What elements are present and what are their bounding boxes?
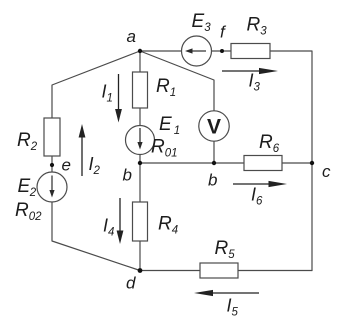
current arrow I3 [222,68,278,74]
node c [310,161,331,181]
svg-text:f: f [220,23,227,42]
svg-text:R1: R1 [156,76,176,99]
wire [270,51,312,271]
node f [220,23,227,54]
node b (left) [123,161,143,185]
node e [50,156,71,175]
svg-text:I4: I4 [103,216,114,239]
wire [51,156,53,173]
resistor R2 [44,118,60,156]
wire [140,50,182,52]
svg-text:R02: R02 [15,200,42,223]
node a [127,27,143,53]
wire [139,241,141,271]
resistor R5 [200,263,238,278]
wire [212,50,232,52]
svg-text:I3: I3 [249,71,261,94]
svg-text:b: b [123,166,132,185]
svg-text:R01: R01 [151,137,178,160]
svg-text:R4: R4 [158,214,178,237]
voltmeter V circle [199,111,229,141]
current arrow I6 [233,181,287,187]
current arrow I5 [194,290,259,296]
resistor R3 [231,44,270,59]
wire [140,270,200,272]
wire [52,51,140,118]
current arrow I4 [117,198,124,244]
wire [282,162,312,164]
svg-text:I5: I5 [227,296,239,319]
wire [139,155,141,164]
svg-text:R5: R5 [215,238,236,261]
svg-text:R2: R2 [17,130,38,153]
svg-text:E1: E1 [159,114,180,137]
source E2 circle [37,172,67,202]
svg-text:d: d [126,274,136,293]
svg-text:R3: R3 [247,15,268,38]
source E2 internal arrow [49,176,54,198]
svg-text:I2: I2 [89,154,101,177]
resistor R6 [244,156,282,171]
wire [213,141,215,164]
svg-text:b: b [208,171,217,190]
wire [238,270,312,272]
node b (right) [208,161,217,190]
wire [140,51,214,112]
wire [140,162,244,164]
wire [139,163,141,202]
source E1 internal arrow [137,128,142,150]
svg-text:I6: I6 [251,185,263,208]
source E3 circle [182,36,212,66]
svg-text:E3: E3 [192,11,212,34]
source E3 internal arrow [185,48,206,53]
svg-text:c: c [322,162,331,181]
svg-text:R6: R6 [259,132,280,155]
wire [139,51,141,72]
wire [52,202,140,271]
resistor R4 [133,202,148,241]
svg-text:V: V [207,116,221,139]
svg-text:I1: I1 [102,82,113,105]
svg-text:e: e [62,156,71,175]
wire [139,108,141,126]
current arrow I2 [79,124,86,176]
source E1 circle [126,126,155,155]
current arrow I1 [115,74,122,123]
svg-text:a: a [127,27,136,46]
resistor R1 [133,72,148,108]
node d [126,268,142,292]
svg-text:E2: E2 [18,176,37,199]
